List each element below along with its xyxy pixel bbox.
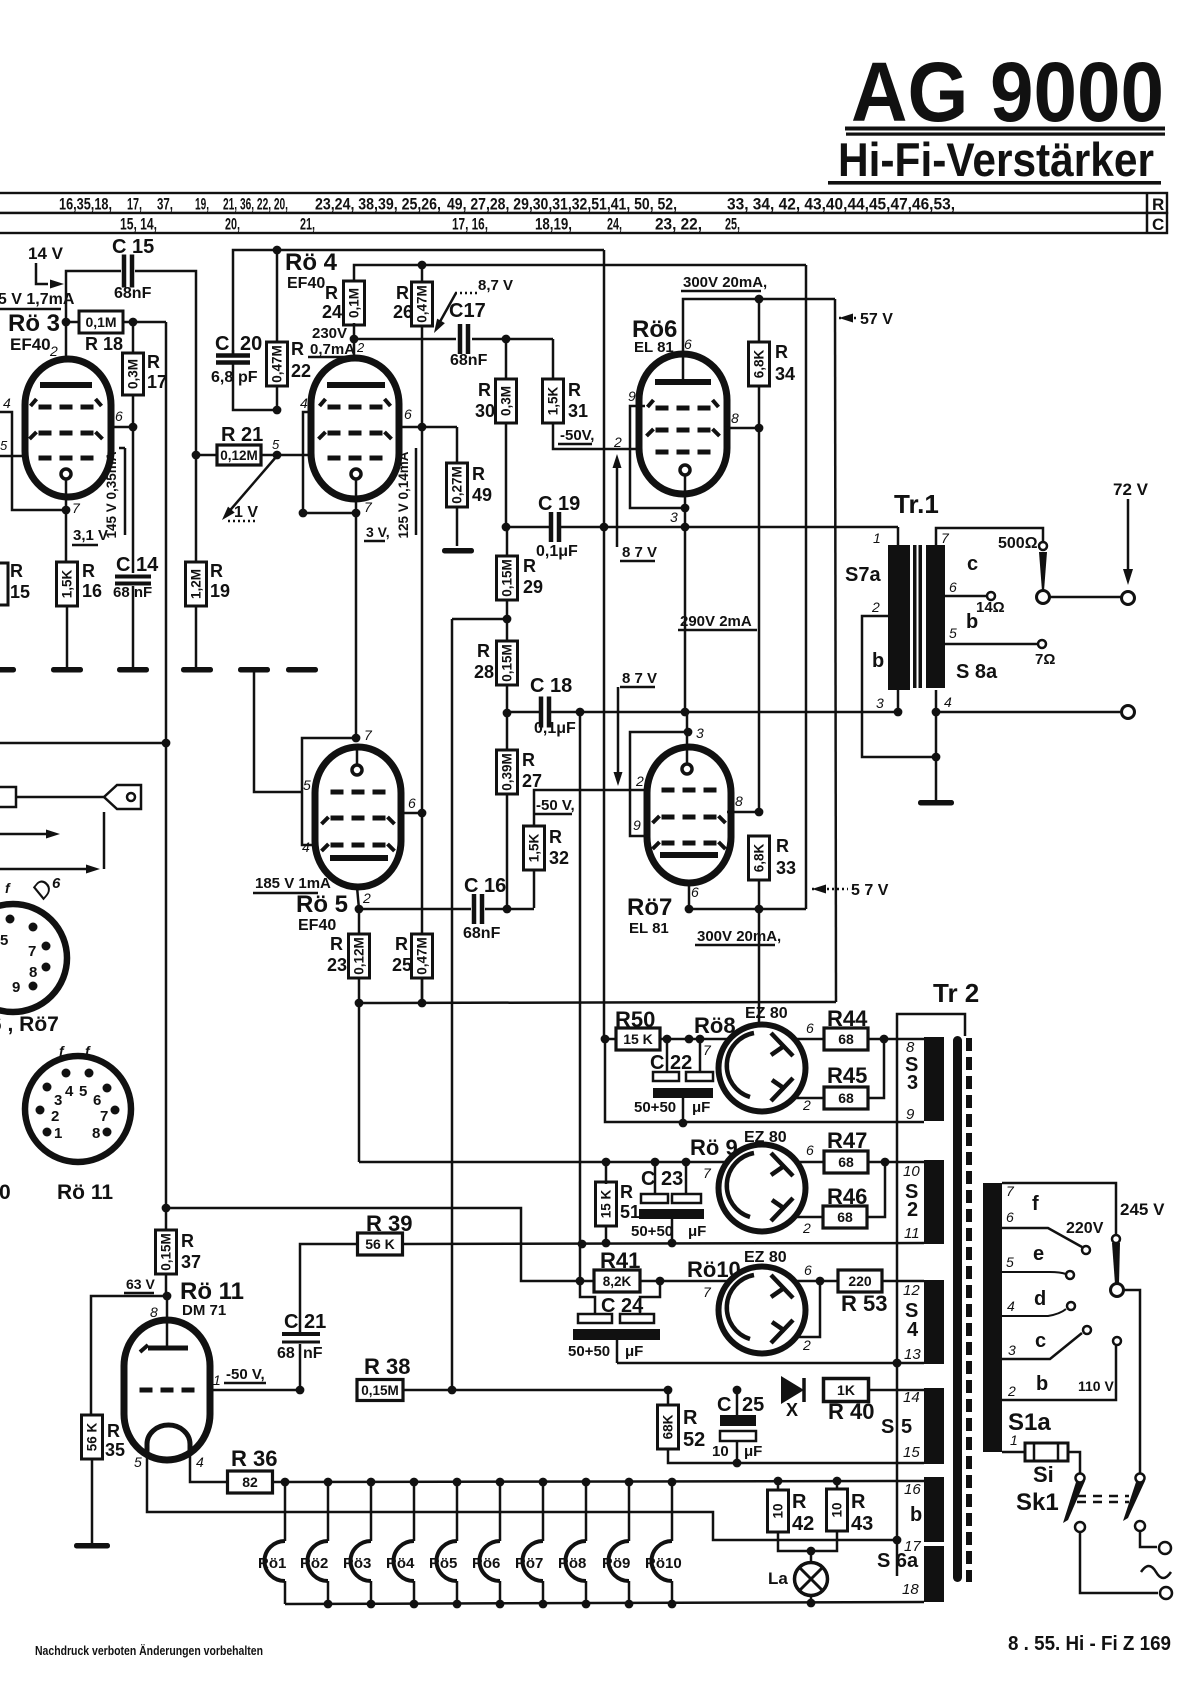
- svg-text:2: 2: [356, 340, 365, 355]
- ground R49: [442, 548, 474, 554]
- svg-text:pF: pF: [238, 369, 258, 386]
- node R18 right: [123, 321, 166, 324]
- svg-text:Rö1: Rö1: [258, 1555, 286, 1572]
- svg-text:11: 11: [904, 1225, 920, 1242]
- svg-text:-50V,: -50V,: [560, 427, 594, 444]
- svg-text:7: 7: [941, 530, 950, 546]
- Tr2 mains winding bar: [983, 1183, 1002, 1452]
- resistor R16: [57, 562, 78, 606]
- svg-text:25: 25: [392, 955, 412, 975]
- svg-text:5: 5: [272, 437, 280, 452]
- svg-text:La: La: [768, 1569, 788, 1588]
- svg-text:0,12M: 0,12M: [352, 937, 367, 975]
- svg-text:33: 33: [776, 858, 796, 878]
- wire R27 bottom: [506, 794, 509, 908]
- svg-text:1: 1: [213, 1372, 221, 1388]
- svg-text:C 14: C 14: [116, 554, 159, 576]
- tube Rö11 (DM71): [124, 1320, 210, 1460]
- tube Rö5 (EF40): [315, 747, 401, 887]
- svg-text:68K: 68K: [661, 1414, 676, 1439]
- svg-text:5: 5: [303, 777, 311, 793]
- wire anode rail y265 to Rö7 feed: [805, 265, 808, 909]
- svg-text:2: 2: [613, 434, 622, 450]
- svg-text:2: 2: [51, 1108, 59, 1125]
- ground Tr1: [918, 800, 954, 806]
- svg-text:Sk1: Sk1: [1016, 1489, 1059, 1516]
- svg-text:EF40: EF40: [287, 275, 325, 292]
- svg-text:0,15M: 0,15M: [361, 1383, 399, 1398]
- wire fuse to plug: [1068, 1452, 1080, 1473]
- svg-text:R: R: [396, 283, 409, 303]
- svg-text:56 K: 56 K: [365, 1236, 395, 1252]
- svg-text:C: C: [215, 333, 229, 355]
- svg-text:-50 V,: -50 V,: [536, 797, 575, 814]
- band R/C label box divider: [1146, 193, 1149, 233]
- svg-text:7: 7: [72, 500, 81, 516]
- wire top rail y250 corner down: [603, 250, 606, 1039]
- svg-text:2: 2: [802, 1220, 811, 1236]
- svg-text:8: 8: [731, 410, 739, 426]
- svg-text:C 16: C 16: [464, 875, 506, 897]
- Tr1 core lines: [913, 545, 917, 688]
- svg-text:3,1 V: 3,1 V: [73, 527, 108, 544]
- Tr1 wiper wedge: [1039, 552, 1047, 591]
- wire R31 to Rö6 grid: [553, 423, 641, 449]
- svg-text:72 V: 72 V: [1113, 480, 1149, 499]
- Tr2 left boundary line: [897, 1014, 965, 1576]
- svg-text:S 8a: S 8a: [956, 661, 998, 683]
- svg-text:2: 2: [49, 343, 58, 359]
- svg-text:23, 22,: 23, 22,: [655, 215, 702, 234]
- svg-text:1,5K: 1,5K: [546, 386, 561, 415]
- svg-text:7: 7: [100, 1108, 108, 1125]
- svg-text:Rö7: Rö7: [627, 894, 672, 921]
- svg-text:9: 9: [906, 1106, 915, 1123]
- svg-text:8,2K: 8,2K: [603, 1274, 632, 1289]
- svg-text:29: 29: [523, 577, 543, 597]
- svg-text:26: 26: [393, 302, 413, 322]
- svg-text:R: R: [549, 827, 562, 847]
- wire left contact to mains terminal: [1080, 1532, 1158, 1593]
- Tr2 core dashed line: [966, 1038, 972, 1582]
- ground Rö5 g3: [238, 667, 270, 673]
- wire C15 node: [66, 271, 121, 359]
- svg-text:R: R: [775, 342, 788, 362]
- svg-text:5: 5: [0, 438, 8, 453]
- svg-text:7: 7: [364, 499, 373, 515]
- svg-text:68: 68: [838, 1031, 854, 1047]
- svg-text:R47: R47: [827, 1128, 867, 1153]
- svg-text:Rö5: Rö5: [429, 1555, 457, 1572]
- wire Rö7 anode node: [689, 908, 806, 911]
- svg-text:R: R: [523, 556, 536, 576]
- resistor R49: [456, 427, 459, 463]
- svg-text:Rö9: Rö9: [602, 1555, 630, 1572]
- svg-text:10: 10: [830, 1502, 845, 1517]
- pin 5 ground wire: [254, 672, 302, 792]
- svg-text:0,1μF: 0,1μF: [534, 720, 576, 737]
- svg-text:0,15M: 0,15M: [159, 1233, 174, 1271]
- svg-text:μF: μF: [625, 1343, 643, 1360]
- resistor R19: [195, 455, 198, 562]
- ground R15: [0, 667, 16, 673]
- svg-text:19,: 19,: [195, 195, 209, 214]
- svg-text:50+50: 50+50: [631, 1223, 673, 1240]
- svg-text:c: c: [967, 553, 978, 575]
- ground R16: [51, 667, 83, 673]
- svg-text:EF40: EF40: [10, 335, 51, 354]
- svg-text:6: 6: [52, 875, 61, 892]
- svg-text:R: R: [291, 339, 304, 359]
- wire x605 down to S3 pin9: [605, 1039, 924, 1122]
- resistor R31: [552, 339, 555, 379]
- svg-text:R45: R45: [827, 1063, 867, 1088]
- svg-text:68 nF: 68 nF: [113, 584, 152, 601]
- svg-text:300V 20mA,: 300V 20mA,: [683, 274, 767, 291]
- node pin 8 Rö11: [165, 1274, 168, 1296]
- svg-text:1 V: 1 V: [234, 504, 258, 521]
- wire R38 row to S5 pin14: [403, 1389, 452, 1392]
- socket Rö6 Rö7 ring: [0, 904, 67, 1012]
- resistor R29: [506, 527, 509, 556]
- svg-text:56 K: 56 K: [85, 1422, 100, 1451]
- svg-text:14 V: 14 V: [28, 244, 64, 263]
- resistor R23: [358, 909, 361, 935]
- svg-text:9: 9: [12, 979, 20, 996]
- svg-text:14Ω: 14Ω: [976, 599, 1005, 616]
- svg-text:5: 5: [0, 932, 8, 949]
- svg-text:500Ω: 500Ω: [998, 535, 1038, 552]
- fuse Si: [1002, 1451, 1025, 1454]
- plug Sk1 right prong: [1136, 1474, 1145, 1483]
- svg-text:EL 81: EL 81: [629, 920, 669, 937]
- wire R26 bottom long: [421, 325, 424, 1003]
- wire Rö9 row lower rail to S2 pin 11: [403, 1243, 924, 1244]
- svg-text:20: 20: [240, 333, 262, 355]
- svg-text:nF: nF: [303, 1345, 323, 1362]
- svg-text:μF: μF: [744, 1443, 762, 1460]
- svg-text:9: 9: [633, 817, 641, 833]
- svg-text:R: R: [472, 464, 485, 484]
- svg-text:R: R: [776, 836, 789, 856]
- svg-text:68: 68: [277, 1345, 295, 1362]
- resistor R28: [497, 641, 518, 685]
- svg-text:125 V 0,14mA: 125 V 0,14mA: [396, 451, 411, 538]
- resistor R18: [66, 321, 79, 324]
- svg-text:1,5K: 1,5K: [60, 569, 75, 598]
- svg-text:230V: 230V: [312, 325, 347, 342]
- input arrow lower: [0, 868, 88, 871]
- resistor R53: [838, 1270, 882, 1292]
- filament loop Rö11: [147, 1425, 190, 1452]
- wire y1208 to R41 feed: [166, 1208, 594, 1281]
- svg-text:24,: 24,: [607, 215, 622, 234]
- wire Rö9 row rail: [359, 1161, 730, 1164]
- svg-text:10: 10: [903, 1163, 920, 1180]
- svg-text:300V 20mA,: 300V 20mA,: [697, 928, 781, 945]
- svg-text:10: 10: [771, 1503, 786, 1518]
- svg-text:3: 3: [876, 695, 884, 711]
- svg-text:7: 7: [364, 727, 373, 743]
- svg-text:12: 12: [903, 1282, 920, 1299]
- svg-text:17: 17: [147, 372, 167, 392]
- wire grid feed Rö4 top: [233, 250, 604, 354]
- ground C14: [117, 667, 149, 673]
- svg-text:R 53: R 53: [841, 1291, 887, 1316]
- svg-text:R: R: [330, 934, 343, 954]
- svg-text:7: 7: [703, 1042, 712, 1058]
- heater Rö10: [671, 1482, 674, 1541]
- svg-text:C 18: C 18: [530, 675, 572, 697]
- svg-text:C 21: C 21: [284, 1311, 326, 1333]
- socket1 pins: [6, 915, 15, 924]
- svg-text:23: 23: [327, 955, 347, 975]
- svg-text:50+50: 50+50: [634, 1099, 676, 1116]
- svg-text:R: R: [210, 561, 223, 581]
- svg-text:43: 43: [851, 1513, 873, 1535]
- resistor R34: [758, 299, 761, 342]
- svg-text:6,8K: 6,8K: [752, 843, 767, 872]
- svg-text:9: 9: [628, 388, 636, 404]
- node pin5 Rö4: [273, 451, 282, 460]
- resistor R42: [777, 1481, 780, 1490]
- svg-text:b: b: [1036, 1373, 1048, 1395]
- resistor R27: [497, 750, 518, 794]
- svg-text:4: 4: [1007, 1298, 1015, 1314]
- svg-text:Nachdruck verboten Änderunge: Nachdruck verboten Änderungen vorbehalte…: [35, 1643, 263, 1658]
- svg-text:8,7 V: 8,7 V: [478, 277, 513, 294]
- subtitle underline: [828, 181, 1161, 185]
- svg-text:Rö 11: Rö 11: [57, 1181, 113, 1204]
- svg-text:X: X: [786, 1400, 798, 1420]
- resistor R25: [412, 934, 433, 978]
- svg-text:5: 5: [1006, 1254, 1014, 1270]
- svg-text:e: e: [1033, 1243, 1044, 1265]
- svg-text:4: 4: [196, 1454, 204, 1470]
- svg-text:25: 25: [742, 1394, 764, 1416]
- svg-text:49, 27,28, 29,30,31,32,51,41,: 49, 27,28, 29,30,31,32,51,41, 50, 52,: [447, 195, 677, 214]
- wire wiper to 72V terminal: [1049, 596, 1121, 599]
- wire R17 to C14: [132, 395, 135, 573]
- svg-text:EF40: EF40: [298, 917, 336, 934]
- svg-text:2: 2: [635, 773, 644, 789]
- svg-text:5: 5: [949, 625, 957, 641]
- wire C19 to Tr1 pin1: [561, 526, 898, 529]
- svg-text:R: R: [181, 1231, 194, 1251]
- svg-text:15, 14,: 15, 14,: [120, 215, 157, 234]
- svg-text:C: C: [717, 1394, 731, 1416]
- resistor R24: [354, 265, 806, 281]
- title underline double: [845, 127, 1165, 131]
- svg-text:6: 6: [691, 884, 699, 900]
- input arrow upper: [0, 833, 50, 836]
- svg-text:0,15M: 0,15M: [500, 559, 515, 597]
- plug Sk1 left prong: [1076, 1474, 1085, 1483]
- svg-text:R: R: [568, 380, 581, 400]
- svg-text:17,: 17,: [127, 195, 142, 214]
- svg-text:6: 6: [115, 408, 123, 424]
- svg-text:Tr 2: Tr 2: [933, 978, 979, 1008]
- svg-text:6: 6: [949, 579, 957, 595]
- resistor R35: [82, 1415, 103, 1459]
- heater Rö1: [284, 1482, 287, 1541]
- resistor R26: [421, 265, 424, 283]
- plug socket left contact: [1075, 1522, 1085, 1532]
- svg-text:Rö7: Rö7: [515, 1555, 543, 1572]
- svg-text:68nF: 68nF: [114, 285, 152, 302]
- svg-text:R: R: [620, 1182, 633, 1202]
- diode X: [781, 1376, 804, 1404]
- svg-text:R: R: [147, 352, 160, 372]
- svg-text:68nF: 68nF: [450, 352, 488, 369]
- label 57V lower with arrow: [812, 885, 826, 894]
- svg-text:Rö3: Rö3: [343, 1555, 371, 1572]
- svg-text:Rö 3: Rö 3: [8, 310, 60, 337]
- resistor R30: [505, 339, 508, 380]
- resistor R33: [749, 836, 770, 880]
- svg-text:290V 2mA: 290V 2mA: [680, 613, 752, 630]
- Tr2 winding S6a bar: [924, 1546, 944, 1602]
- svg-text:49: 49: [472, 485, 492, 505]
- svg-text:6: 6: [684, 336, 692, 352]
- svg-text:R: R: [107, 1421, 120, 1441]
- svg-text:0: 0: [0, 1181, 11, 1204]
- svg-text:R: R: [478, 380, 491, 400]
- svg-text:7: 7: [703, 1284, 712, 1300]
- socket Rö11 ring: [25, 1056, 131, 1162]
- heater Rö5: [456, 1482, 459, 1541]
- wire right contact to mains terminal: [1140, 1531, 1157, 1547]
- svg-text:27: 27: [522, 771, 542, 791]
- svg-text:1: 1: [873, 530, 881, 546]
- svg-text:Rö 4: Rö 4: [285, 249, 338, 276]
- svg-text:C17: C17: [449, 300, 486, 322]
- svg-text:22: 22: [291, 361, 311, 381]
- wire R45 to node: [868, 1039, 884, 1098]
- svg-text:7: 7: [28, 943, 36, 960]
- svg-text:d: d: [1034, 1288, 1046, 1310]
- wire screen supply x835: [835, 299, 836, 1002]
- input plug spade lug: [16, 796, 104, 799]
- mains AC symbol: [1141, 1566, 1171, 1578]
- heater Rö3: [370, 1482, 373, 1541]
- ground R35: [74, 1543, 110, 1549]
- svg-text:0,47M: 0,47M: [415, 285, 430, 323]
- svg-text:2: 2: [802, 1337, 811, 1353]
- svg-text:2: 2: [907, 1199, 918, 1221]
- svg-text:b: b: [910, 1504, 922, 1526]
- svg-text:0,1M: 0,1M: [347, 288, 362, 318]
- svg-text:Rö 5: Rö 5: [296, 891, 348, 918]
- wire S4 pin13 row: [617, 1362, 924, 1365]
- socket2 pins: [62, 1069, 71, 1078]
- resistor R32: [534, 790, 647, 827]
- svg-text:4: 4: [907, 1319, 919, 1341]
- svg-text:68nF: 68nF: [463, 925, 501, 942]
- resistor R22: [276, 250, 279, 342]
- wire x451 long vertical: [451, 619, 454, 1390]
- wire R23 bottom: [358, 977, 361, 1162]
- label 57V top with arrow: [839, 314, 853, 323]
- svg-text:10: 10: [712, 1443, 729, 1460]
- svg-text:21,: 21,: [300, 215, 315, 234]
- svg-text:8 7 V: 8 7 V: [622, 670, 657, 687]
- svg-text:C 23: C 23: [641, 1168, 683, 1190]
- Tr2 core solid bar: [953, 1036, 962, 1582]
- tube Rö8 (EZ80): [719, 1025, 806, 1112]
- plug socket right contact: [1135, 1521, 1145, 1531]
- wire Rö6 anode node: [683, 299, 835, 382]
- svg-text:0,12M: 0,12M: [220, 448, 258, 463]
- svg-text:μF: μF: [692, 1099, 710, 1116]
- svg-text:Si: Si: [1033, 1462, 1054, 1487]
- svg-text:23,24, 38,39, 25,26,: 23,24, 38,39, 25,26,: [315, 195, 441, 214]
- wire R24 bottom node 230V: [353, 323, 356, 358]
- svg-text:245 V: 245 V: [1120, 1200, 1165, 1219]
- svg-text:0,47M: 0,47M: [415, 937, 430, 975]
- heater Rö8: [585, 1482, 588, 1541]
- mains winding top wire to 245V: [1002, 1183, 1116, 1235]
- tube Rö4 (EF40): [311, 358, 399, 499]
- svg-text:68: 68: [838, 1090, 854, 1106]
- svg-text:16: 16: [82, 581, 102, 601]
- Tr2 winding S2 bar: [924, 1160, 944, 1244]
- svg-text:50+50: 50+50: [568, 1343, 610, 1360]
- svg-text:8 7 V: 8 7 V: [622, 544, 657, 561]
- tube Rö6 (EL81): [639, 354, 727, 494]
- svg-text:0,1μF: 0,1μF: [536, 543, 578, 560]
- svg-text:EZ 80: EZ 80: [745, 1005, 788, 1022]
- resistor R37: [156, 1230, 177, 1274]
- svg-text:R: R: [792, 1491, 807, 1513]
- svg-text:2: 2: [871, 599, 880, 615]
- heater bottom rail: [285, 1602, 924, 1604]
- svg-text:S7a: S7a: [845, 564, 881, 586]
- wire C17 to R30/R31: [472, 338, 553, 341]
- svg-text:14: 14: [903, 1389, 920, 1406]
- svg-text:15: 15: [903, 1444, 920, 1461]
- svg-text:3 V,: 3 V,: [366, 524, 390, 540]
- resistor R52: [667, 1390, 670, 1405]
- heater Rö4: [413, 1482, 416, 1541]
- Tr2 winding S5 bar: [924, 1388, 944, 1464]
- svg-text:AG 9000: AG 9000: [851, 45, 1164, 139]
- svg-text:6: 6: [1006, 1209, 1014, 1225]
- svg-text:-50 V,: -50 V,: [226, 1366, 265, 1383]
- component index band row R: [0, 193, 1167, 213]
- svg-text:R 38: R 38: [364, 1354, 410, 1379]
- svg-text:5: 5: [901, 1416, 912, 1438]
- svg-text:0,27M: 0,27M: [450, 466, 465, 504]
- svg-text:68: 68: [838, 1154, 854, 1170]
- svg-text:57 V: 57 V: [860, 311, 893, 328]
- component index band row C: [0, 213, 1167, 233]
- svg-text:0,3M: 0,3M: [126, 359, 141, 389]
- svg-text:15 K: 15 K: [599, 1189, 614, 1218]
- svg-text:1,2M: 1,2M: [189, 569, 204, 599]
- svg-text:Rö2: Rö2: [300, 1555, 328, 1572]
- svg-text:51: 51: [620, 1202, 640, 1222]
- svg-text:0,47M: 0,47M: [270, 345, 285, 383]
- svg-text:37,: 37,: [157, 195, 173, 214]
- svg-text:0,39M: 0,39M: [500, 753, 515, 791]
- input plug body: [0, 787, 16, 807]
- wire R34 bottom long: [758, 385, 761, 812]
- wire input to x166: [0, 742, 166, 745]
- svg-text:5: 5: [134, 1454, 142, 1470]
- wire anode supply rail to Rö6: [359, 1002, 836, 1003]
- svg-text:4: 4: [65, 1083, 74, 1100]
